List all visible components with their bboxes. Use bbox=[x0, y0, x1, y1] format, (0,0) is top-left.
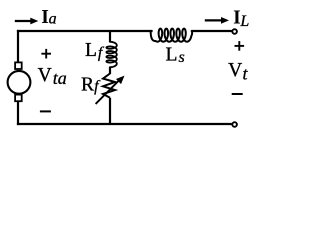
svg-text:a: a bbox=[49, 10, 57, 27]
svg-text:V: V bbox=[38, 65, 52, 86]
svg-text:L: L bbox=[239, 13, 249, 30]
svg-text:L: L bbox=[166, 44, 178, 65]
svg-text:V: V bbox=[228, 60, 242, 81]
svg-text:L: L bbox=[85, 40, 97, 61]
svg-text:s: s bbox=[179, 49, 185, 66]
svg-text:R: R bbox=[81, 74, 94, 95]
svg-text:ta: ta bbox=[53, 68, 67, 88]
